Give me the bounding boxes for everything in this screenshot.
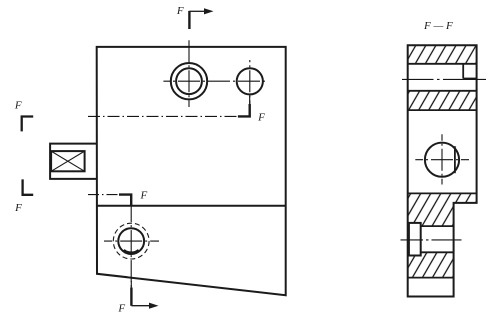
- svg-text:F: F: [176, 5, 184, 17]
- svg-text:F: F: [14, 202, 22, 214]
- svg-text:F: F: [14, 99, 22, 111]
- svg-text:F: F: [140, 189, 148, 201]
- svg-text:F: F: [257, 111, 265, 123]
- svg-text:F — F: F — F: [423, 20, 453, 32]
- svg-text:F: F: [117, 303, 125, 315]
